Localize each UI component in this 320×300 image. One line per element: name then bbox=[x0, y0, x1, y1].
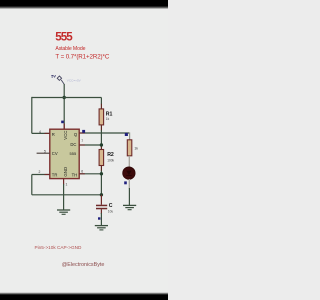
logic state indicator (blue) at VCC pin bbox=[61, 121, 64, 124]
resistor R2 bbox=[99, 150, 114, 166]
resistor R1 bbox=[99, 109, 112, 125]
svg-text:4: 4 bbox=[39, 130, 41, 134]
svg-text:1k: 1k bbox=[106, 117, 110, 121]
wire: left lower vertical (trigger loop) bbox=[31, 175, 33, 195]
wire: power feed vertical down to VCC pin bbox=[63, 84, 65, 130]
svg-text:DC: DC bbox=[70, 142, 76, 147]
svg-text:R: R bbox=[52, 132, 55, 137]
svg-text:T = 0.7*(R1+2R2)*C: T = 0.7*(R1+2R2)*C bbox=[55, 53, 109, 60]
power terminal +5V bbox=[51, 75, 81, 85]
svg-text:2: 2 bbox=[39, 170, 41, 174]
pin R (4) stub bbox=[45, 132, 50, 134]
wire: threshold pin 6 horizontal bbox=[79, 173, 101, 175]
junction: power feed on top rail bbox=[62, 96, 65, 99]
ground (IC GND pin) bbox=[57, 210, 70, 214]
ground (LED branch) bbox=[123, 205, 136, 209]
junction: pin6 / R2 bottom bbox=[100, 172, 103, 175]
wire: LED bottom pin stub (animated gray) bbox=[128, 179, 130, 189]
wire: reset pin 4 horizontal bbox=[32, 132, 50, 134]
wire: R2 bottom to cap node (through pin6 node) bbox=[100, 171, 102, 195]
pin CV (5) stub bbox=[37, 152, 50, 154]
pin VCC (8) stub bbox=[63, 124, 65, 130]
svg-text:TR: TR bbox=[52, 172, 58, 177]
pin stub: R2 bottom bbox=[100, 165, 102, 171]
wire: cap bottom to ground bbox=[100, 213, 102, 225]
svg-text:100k: 100k bbox=[107, 158, 114, 162]
pin stub: R1 bottom bbox=[100, 125, 102, 131]
svg-text:5: 5 bbox=[44, 149, 46, 153]
capacitor C bbox=[96, 195, 113, 214]
logic state indicator (blue) at R3 top bbox=[125, 133, 128, 136]
logic state indicator (blue) at Q pin bbox=[82, 130, 85, 133]
resistor R3 (LED series) bbox=[127, 140, 138, 156]
wire: trigger pin 2 horizontal bbox=[32, 174, 50, 176]
svg-text:@ElectronicsByte: @ElectronicsByte bbox=[62, 262, 105, 268]
wire: IC GND pin down to ground bbox=[63, 184, 65, 210]
junction: trigger wire / cap top bbox=[100, 193, 103, 196]
wire: left vertical (top rail to reset pin) bbox=[31, 97, 33, 133]
svg-text:5V: 5V bbox=[51, 75, 56, 79]
svg-text:1: 1 bbox=[66, 183, 68, 187]
pin TH (6) stub bbox=[79, 173, 85, 175]
wire: LED branch vertical from Q wire to R3 (pin stub, animated gray) bbox=[129, 133, 131, 140]
logic state indicator (blue) at cap ground wire bbox=[98, 217, 100, 219]
wire: main right column (rail to R1) bbox=[100, 98, 102, 105]
svg-text:6: 6 bbox=[81, 169, 83, 173]
wire: top rail horizontal bbox=[32, 97, 102, 99]
svg-text:7: 7 bbox=[81, 139, 83, 143]
wire: R3 bottom to LED (animated gray) bbox=[128, 156, 130, 169]
wire: R1 bottom to R2 top (through pin7 node) bbox=[100, 130, 102, 145]
LED D1 bbox=[123, 167, 135, 179]
pin TR (2) stub bbox=[45, 174, 50, 176]
wire: LED branch to ground bbox=[128, 188, 130, 205]
svg-text:Pin5->10k CAP->GND: Pin5->10k CAP->GND bbox=[35, 245, 83, 250]
svg-text:555: 555 bbox=[70, 151, 77, 156]
pin Q (3) stub bbox=[79, 132, 85, 134]
svg-text:10u: 10u bbox=[108, 210, 114, 214]
pin DC (7) stub bbox=[79, 144, 85, 146]
svg-text:TH: TH bbox=[72, 172, 78, 177]
svg-text:GND: GND bbox=[63, 167, 68, 177]
logic state indicator (blue) below LED bbox=[124, 181, 127, 184]
svg-text:R2: R2 bbox=[107, 152, 114, 158]
IC U1 555 body bbox=[50, 129, 79, 178]
svg-text:555: 555 bbox=[55, 31, 73, 44]
svg-text:1k: 1k bbox=[134, 146, 138, 150]
svg-text:CV: CV bbox=[52, 151, 58, 156]
wire: output Q pin 3 horizontal to LED branch bbox=[79, 132, 129, 134]
svg-text:Astable Mode: Astable Mode bbox=[55, 46, 85, 52]
svg-text:VCC=+5V: VCC=+5V bbox=[67, 78, 82, 82]
svg-text:VCC: VCC bbox=[63, 131, 68, 140]
pin stub: R2 top bbox=[100, 145, 102, 150]
pin GND (1) stub bbox=[63, 179, 65, 185]
wire: discharge pin 7 horizontal bbox=[79, 144, 101, 146]
ground (capacitor) bbox=[95, 226, 108, 230]
svg-text:C: C bbox=[109, 203, 113, 209]
pin stub: R1 top bbox=[100, 104, 102, 110]
wire: bottom horizontal (trigger to cap node) bbox=[32, 194, 102, 196]
junction: pin7 / R1-R2 bbox=[100, 143, 103, 146]
